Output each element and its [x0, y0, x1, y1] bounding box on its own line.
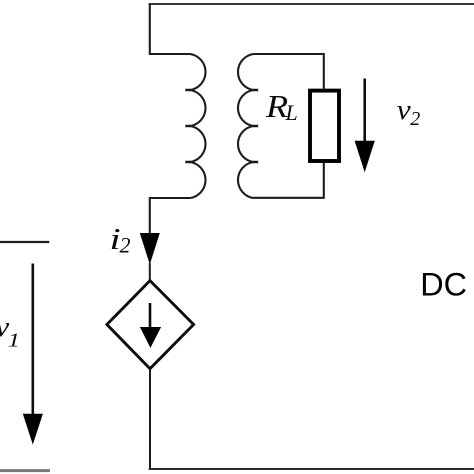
svg-text:1: 1	[8, 329, 20, 351]
svg-text:v: v	[397, 93, 412, 126]
svg-text:2: 2	[120, 232, 131, 257]
svg-text:2: 2	[410, 108, 420, 130]
svg-text:L: L	[285, 100, 298, 125]
svg-text:DC: DC	[420, 266, 467, 302]
